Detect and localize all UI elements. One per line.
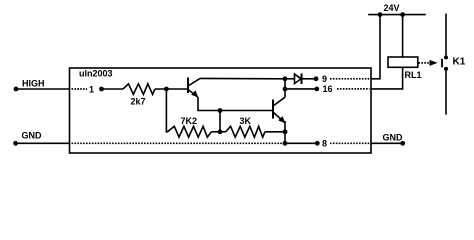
wire pin9 to 24V drop — [371, 15, 380, 79]
node GND right terminal — [400, 141, 405, 146]
node pin16 junction — [283, 87, 288, 92]
node 24V left — [378, 12, 383, 17]
svg-text:2k7: 2k7 — [131, 97, 146, 107]
node pin 9 — [314, 76, 319, 81]
wire junction down to 7K2 — [166, 89, 168, 132]
svg-text:HIGH: HIGH — [22, 79, 45, 89]
node pin 1 — [99, 87, 104, 92]
wire HIGH input — [16, 88, 70, 90]
svg-text:1: 1 — [89, 85, 94, 95]
wire Q1 collector rail — [200, 77, 285, 79]
node 24V right — [400, 12, 405, 17]
wire junction down to resistor row — [219, 111, 221, 132]
wire pin 9 dotted — [330, 78, 370, 80]
node GND left terminal — [13, 141, 18, 146]
svg-text:24V: 24V — [384, 3, 400, 13]
node pin 8 — [315, 141, 320, 146]
node emitter junction — [218, 108, 223, 113]
svg-text:8: 8 — [322, 139, 327, 149]
wire 24V rail — [368, 14, 426, 16]
svg-text:uln2003: uln2003 — [79, 69, 113, 79]
svg-text:RL1: RL1 — [405, 70, 422, 80]
transistor Q2 — [272, 100, 274, 119]
resistor 2k7 — [123, 84, 155, 95]
wire pin8 row — [285, 142, 317, 144]
node base junction — [164, 87, 169, 92]
wire GND right — [371, 142, 403, 144]
contact K1 — [445, 14, 447, 56]
svg-text:3K: 3K — [240, 116, 252, 126]
svg-text:GND: GND — [22, 131, 43, 141]
wire relay actuation dotted arrow — [419, 62, 430, 64]
svg-text:GND: GND — [383, 133, 404, 143]
wire pin 16 dotted — [337, 88, 370, 90]
node pin 16 — [314, 87, 319, 92]
IC U1 uln2003 boundary box — [70, 68, 372, 153]
svg-text:16: 16 — [323, 84, 333, 94]
node HIGH terminal — [14, 87, 19, 92]
wire 7K2 to 3K — [211, 131, 225, 133]
wire pin16 to relay — [371, 67, 403, 89]
wire Q2 collector up — [284, 79, 286, 97]
node resistor junction — [218, 129, 223, 134]
wire 3K to emitter node — [265, 131, 285, 133]
svg-text:K1: K1 — [453, 57, 466, 68]
relay coil RL1 — [388, 57, 418, 67]
node pin8 junction — [283, 141, 288, 146]
wire GND dotted row inside box — [72, 142, 284, 144]
wire GND left — [16, 142, 70, 144]
resistor 3K — [226, 126, 265, 137]
wire 24V to relay top — [402, 15, 404, 57]
diode D1 — [285, 78, 295, 80]
wire resistor to Q1 base — [155, 88, 188, 90]
resistor 7K2 — [168, 126, 212, 137]
wire pin 8 dotted — [330, 142, 370, 144]
wire pin1 to resistor — [102, 88, 124, 90]
wire pin16 row — [285, 88, 317, 90]
wire pin 1 dotted — [72, 88, 88, 90]
node resistor/emitter junction — [283, 129, 288, 134]
svg-text:7K2: 7K2 — [181, 116, 198, 126]
wire Q2 emitter down — [284, 121, 286, 143]
wire Q1 emitter to Q2 base — [198, 97, 273, 111]
transistor Q1 — [187, 78, 189, 94]
node collector/diode junction — [283, 76, 288, 81]
svg-text:9: 9 — [322, 74, 327, 84]
